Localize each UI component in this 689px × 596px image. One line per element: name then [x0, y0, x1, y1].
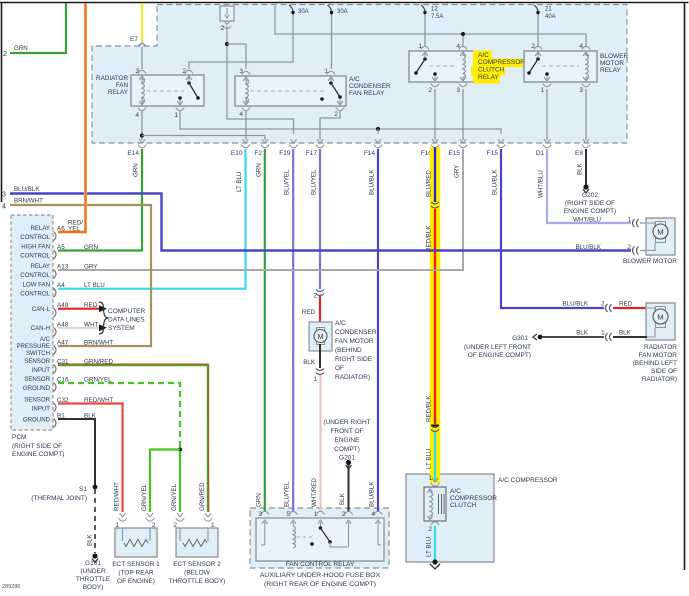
wire: fuse 21 down to blower relay pin 2 — [537, 14, 539, 47]
PCM pin A47 — [54, 346, 57, 355]
svg-text:A/C: A/C — [40, 336, 51, 343]
svg-text:SENSOR: SENSOR — [24, 358, 50, 365]
PCM pin B1 — [54, 419, 57, 428]
under-hood fuse box outline — [92, 5, 627, 144]
svg-text:(RIGHT SIDE OF: (RIGHT SIDE OF — [565, 200, 615, 207]
wire: RED/BLK down — [434, 209, 436, 424]
svg-text:SIDE OF: SIDE OF — [651, 368, 677, 375]
svg-text:WHT/BLU: WHT/BLU — [538, 170, 545, 198]
svg-text:A/C: A/C — [450, 488, 461, 495]
svg-text:M: M — [318, 334, 324, 341]
svg-text:BLU/BLK: BLU/BLK — [14, 186, 40, 193]
svg-text:G301: G301 — [512, 335, 528, 342]
connector: inline RED/BLK to LT BLU — [431, 425, 439, 427]
PCM pin C32 — [54, 403, 57, 412]
svg-text:SYSTEM: SYSTEM — [108, 325, 135, 332]
wire: BLK G301 to radiator fan motor pin 1 — [542, 336, 604, 338]
svg-text:E10: E10 — [231, 150, 243, 157]
svg-text:2: 2 — [601, 301, 605, 308]
svg-text:A6: A6 — [57, 226, 65, 233]
svg-text:4: 4 — [2, 204, 6, 211]
connector E15 — [460, 139, 466, 143]
svg-text:HIGH FAN: HIGH FAN — [21, 244, 50, 251]
svg-text:1: 1 — [418, 43, 422, 50]
svg-text:(BEHIND LEFT: (BEHIND LEFT — [633, 360, 677, 367]
svg-text:289286: 289286 — [2, 584, 20, 590]
svg-text:BLK: BLK — [87, 533, 94, 546]
svg-text:BLK: BLK — [84, 413, 97, 420]
svg-text:SWITCH: SWITCH — [26, 350, 50, 357]
svg-text:LT BLU: LT BLU — [84, 282, 105, 289]
svg-text:F2: F2 — [254, 150, 262, 157]
wire: BLK B1 to S1 — [58, 419, 95, 485]
wire: BLU/BLK PCM pin 3 to blower motor pin 2 — [10, 194, 631, 251]
svg-text:CONTROL: CONTROL — [20, 272, 50, 279]
svg-text:GRN: GRN — [84, 244, 98, 251]
wire: RED CAN-L A49 — [58, 308, 99, 310]
PCM pin A4 — [54, 288, 57, 297]
wire: RED/YEL top to PCM A6 — [58, 3, 86, 232]
svg-text:OF ENGINE): OF ENGINE) — [117, 578, 155, 585]
svg-text:CONDENSER: CONDENSER — [335, 329, 377, 336]
PCM box — [11, 215, 53, 430]
connector F2 — [262, 139, 268, 143]
svg-text:ENGINE COMPT): ENGINE COMPT) — [564, 208, 616, 215]
wire: page left border — [1, 3, 3, 203]
svg-text:RELAY: RELAY — [30, 225, 50, 232]
svg-text:3: 3 — [579, 87, 583, 94]
wire: radiator relay pin 1 output bus y=129 to F14/F15 — [180, 111, 501, 134]
svg-text:FAN MOTOR: FAN MOTOR — [638, 352, 677, 359]
svg-text:2: 2 — [627, 244, 631, 251]
svg-text:4: 4 — [135, 112, 139, 119]
svg-text:SENSOR: SENSOR — [24, 397, 50, 404]
svg-text:RELAY: RELAY — [600, 67, 621, 74]
svg-text:D1: D1 — [536, 150, 545, 157]
svg-text:A/C: A/C — [335, 320, 346, 327]
connector: inline F17 to condenser fan motor pin 2 — [316, 290, 324, 292]
connector F19 — [291, 139, 297, 143]
svg-text:BLU/BLK: BLU/BLK — [369, 169, 376, 195]
motor: blower motor — [646, 218, 675, 255]
svg-text:CAN-L: CAN-L — [32, 306, 51, 313]
ground: A/C compressor case — [432, 559, 437, 564]
wire: blower relay coil pin 3 to E8 — [585, 89, 587, 140]
auxiliary under-hood fuse box — [250, 508, 389, 568]
connector E10 — [243, 139, 249, 143]
svg-text:AUXILIARY UNDER-HOOD FUSE BOX: AUXILIARY UNDER-HOOD FUSE BOX — [260, 572, 381, 579]
svg-text:BODY): BODY) — [83, 584, 104, 591]
fuse 12 7.5A — [421, 5, 425, 11]
svg-text:BRN/WHT: BRN/WHT — [84, 340, 114, 347]
svg-text:G202: G202 — [582, 192, 598, 199]
wire: blower relay pin 1 to D1 — [546, 89, 548, 140]
svg-text:A49: A49 — [57, 302, 69, 309]
wire: RED into radiator fan motor — [613, 307, 647, 309]
svg-text:S1: S1 — [79, 486, 87, 493]
svg-text:FRONT OF: FRONT OF — [330, 428, 363, 435]
wire: clutch relay coil pin 3 to E15 — [462, 89, 464, 140]
svg-text:GRN/YEL: GRN/YEL — [141, 483, 148, 511]
svg-text:F17: F17 — [306, 150, 318, 157]
svg-text:1: 1 — [324, 68, 328, 75]
svg-text:1: 1 — [627, 217, 631, 224]
wire: feed from top to clutch/blower relay coils (y=34 bus) — [275, 6, 586, 47]
svg-text:CONTROL: CONTROL — [20, 234, 50, 241]
svg-text:GRN: GRN — [255, 493, 262, 507]
PCM pin C16 — [54, 383, 57, 392]
svg-text:3: 3 — [456, 87, 460, 94]
svg-text:GRY: GRY — [454, 165, 461, 178]
svg-text:RELAY: RELAY — [30, 263, 50, 270]
svg-text:WHT/RED: WHT/RED — [311, 478, 318, 507]
svg-text:LT BLU: LT BLU — [236, 172, 243, 192]
svg-text:RED/: RED/ — [68, 220, 83, 227]
wire: GRN/YEL C16 dashed to splice — [58, 383, 180, 447]
svg-text:3: 3 — [135, 68, 139, 75]
wire: WHT/BLU D1 to blower motor pin 1 — [547, 149, 631, 223]
svg-text:CONTROL: CONTROL — [20, 253, 50, 260]
wire: LT BLU into compressor — [434, 432, 436, 481]
svg-text:C31: C31 — [57, 359, 69, 366]
wire: BLU/BLK F14 to fan control relay pin 4 — [377, 149, 379, 512]
svg-text:BLK: BLK — [339, 492, 346, 505]
svg-text:BRN/WHT: BRN/WHT — [14, 198, 43, 205]
ground G202 — [583, 184, 588, 189]
svg-text:BLU/BLK: BLU/BLK — [369, 481, 376, 507]
svg-text:A48: A48 — [57, 321, 69, 328]
svg-text:1: 1 — [428, 475, 432, 482]
svg-text:BLU/YEL: BLU/YEL — [311, 169, 318, 195]
node: E14 junction branch to F2 — [140, 133, 144, 137]
svg-text:BLK: BLK — [576, 330, 589, 337]
svg-text:GRN: GRN — [255, 163, 262, 177]
svg-text:GRN: GRN — [14, 45, 28, 52]
svg-text:A/C: A/C — [478, 52, 489, 59]
svg-text:THROTTLE BODY): THROTTLE BODY) — [169, 578, 226, 585]
wire: radiator relay coil pin 4 to E14 — [141, 111, 143, 140]
svg-text:RED/WHT: RED/WHT — [114, 482, 121, 511]
svg-text:2: 2 — [313, 293, 317, 300]
wire: RED condenser motor pigtail — [319, 296, 321, 329]
wire: BLU/YEL F19 to fan control relay pin 5 — [292, 149, 294, 512]
svg-text:A47: A47 — [57, 340, 69, 347]
wire: BRN/WHT pin 4 to PCM A47 — [10, 205, 151, 346]
svg-text:RADIATOR): RADIATOR) — [335, 374, 370, 381]
svg-text:(TOP REAR: (TOP REAR — [118, 570, 153, 577]
wire: E7 to radiator fan relay pin 3 — [141, 47, 143, 69]
svg-text:4: 4 — [456, 43, 460, 50]
svg-text:GRN/YEL: GRN/YEL — [171, 483, 178, 511]
svg-text:(UNDER RIGHT: (UNDER RIGHT — [323, 419, 370, 426]
svg-text:CLUTCH: CLUTCH — [478, 67, 505, 74]
svg-text:COMPRESSOR: COMPRESSOR — [478, 59, 525, 66]
svg-text:E7: E7 — [130, 36, 138, 43]
connector F15 — [498, 139, 504, 143]
svg-text:30A: 30A — [298, 9, 309, 15]
svg-text:2: 2 — [342, 511, 346, 518]
connector: inline radiator fan motor pin 2 — [606, 304, 608, 312]
PCM pin C31 — [54, 365, 57, 374]
connector F10 — [432, 139, 438, 143]
svg-text:ECT SENSOR 1: ECT SENSOR 1 — [112, 561, 160, 568]
svg-text:C32: C32 — [57, 397, 69, 404]
svg-text:(RIGHT REAR OF ENGINE COMPT): (RIGHT REAR OF ENGINE COMPT) — [264, 581, 376, 588]
svg-text:F15: F15 — [487, 150, 499, 157]
wire: 30A fuse 2 down to condenser fan relay pin 1 — [331, 14, 333, 69]
wire: clutch relay pin 2 to F10 — [434, 89, 436, 140]
svg-text:RADIATOR: RADIATOR — [644, 344, 677, 351]
node: fuse 2 branch to condenser fan relay coil pin 3 — [225, 42, 229, 46]
svg-text:RED/BLK: RED/BLK — [426, 395, 433, 422]
fuse 2 (in-box) — [220, 6, 234, 21]
wire: GRN E14 to PCM A5 — [58, 149, 142, 251]
svg-text:2: 2 — [428, 526, 432, 533]
relay: A/C compressor clutch relay — [409, 51, 475, 82]
relay: A/C condenser fan relay — [235, 76, 346, 106]
sensor: ECT sensor 1 — [118, 518, 126, 521]
node: sensor ground splice — [178, 447, 182, 451]
svg-text:GRN: GRN — [133, 163, 140, 177]
fuse 21 40A — [534, 5, 538, 11]
svg-text:1: 1 — [540, 87, 544, 94]
svg-text:3: 3 — [239, 68, 243, 75]
svg-text:MOTOR: MOTOR — [600, 60, 624, 67]
svg-text:COMPRESSOR: COMPRESSOR — [450, 495, 497, 502]
ground G101 — [92, 553, 97, 558]
svg-text:BLK: BLK — [303, 359, 316, 366]
node: junction y34 bus to A/C compressor clutch relay coil — [462, 34, 464, 47]
svg-text:ENGINE: ENGINE — [335, 437, 361, 444]
svg-text:FAN MOTOR: FAN MOTOR — [335, 338, 374, 345]
svg-text:(BEHIND: (BEHIND — [335, 347, 362, 354]
svg-text:ECT SENSOR 2: ECT SENSOR 2 — [173, 561, 221, 568]
svg-text:3: 3 — [258, 511, 262, 518]
svg-text:30A: 30A — [337, 9, 348, 15]
svg-text:BLU/BLK: BLU/BLK — [492, 169, 499, 195]
wire: WHT CAN-H A48 — [58, 327, 99, 329]
svg-text:GRN/RED: GRN/RED — [84, 359, 113, 366]
svg-text:A13: A13 — [57, 264, 69, 271]
connector: inline blower motor pin 1 — [633, 219, 635, 227]
wire: RED/WHT C32 to ECT sensor 1 pin 1 — [58, 404, 123, 513]
svg-text:C16: C16 — [57, 377, 69, 384]
wire: GRN/YEL splice to ECT sensor 1 pin 2 — [150, 450, 180, 513]
svg-text:BLOWER MOTOR: BLOWER MOTOR — [623, 258, 677, 265]
wire: BLU/YEL F17 to condenser fan motor — [319, 149, 321, 289]
svg-text:WHT/BLU: WHT/BLU — [573, 217, 601, 224]
svg-text:1: 1 — [174, 112, 178, 119]
wire: page right border — [684, 3, 686, 571]
PCM pin A48 — [54, 327, 57, 336]
svg-text:RELAY: RELAY — [108, 89, 129, 96]
node: junction to F14 — [376, 127, 380, 131]
splice S1 thermal joint — [93, 485, 98, 490]
svg-text:RED/WHT: RED/WHT — [84, 397, 114, 404]
svg-text:RADIATOR: RADIATOR — [96, 75, 128, 82]
wire: GRN/RED C31 to ECT sensor 2 pin 1 — [58, 365, 208, 512]
relay: fan control relay — [256, 518, 384, 561]
svg-text:BLU/BLK: BLU/BLK — [576, 244, 602, 251]
svg-text:LT BLU: LT BLU — [426, 537, 433, 557]
svg-text:1: 1 — [314, 511, 318, 518]
svg-text:WHT: WHT — [84, 321, 98, 328]
svg-text:A/C: A/C — [349, 76, 360, 83]
svg-text:E14: E14 — [127, 150, 139, 157]
svg-text:3: 3 — [2, 192, 6, 199]
svg-text:COMPUTER: COMPUTER — [108, 308, 146, 315]
svg-text:4: 4 — [579, 43, 583, 50]
svg-text:RED: RED — [619, 301, 633, 308]
PCM pin A5 — [54, 250, 57, 259]
svg-text:M: M — [657, 313, 663, 322]
svg-text:CONDENSER: CONDENSER — [349, 83, 391, 90]
svg-text:2: 2 — [220, 25, 224, 32]
svg-text:RIGHT SIDE: RIGHT SIDE — [335, 356, 373, 363]
svg-text:OF: OF — [335, 365, 344, 372]
A/C compressor box — [406, 474, 494, 562]
svg-text:BLK: BLK — [577, 162, 584, 175]
svg-text:CLUTCH: CLUTCH — [450, 502, 477, 509]
svg-text:(RIGHT SIDE OF: (RIGHT SIDE OF — [12, 443, 62, 450]
wire: YEL top to E7 — [141, 3, 143, 42]
svg-text:(BELOW: (BELOW — [184, 570, 211, 577]
svg-text:INPUT: INPUT — [32, 406, 51, 413]
wire: 30A fuse 1 to radiator fan relay pin 2 — [189, 14, 293, 69]
fuse 30A (radiator fan) — [289, 5, 293, 11]
svg-text:F14: F14 — [364, 150, 376, 157]
wire: GRN top-left off-page 2 — [10, 3, 66, 53]
wire: BLU/BLK F15 to radiator fan motor — [501, 149, 604, 308]
svg-text:INPUT: INPUT — [32, 367, 51, 374]
connector D1 — [544, 139, 550, 143]
svg-text:PRESSURE: PRESSURE — [16, 343, 50, 350]
connector: inline blower motor pin 2 — [633, 247, 635, 255]
svg-text:LT BLU: LT BLU — [426, 449, 433, 469]
svg-text:RELAY: RELAY — [478, 74, 499, 81]
svg-text:CAN-H: CAN-H — [31, 325, 50, 332]
svg-text:5: 5 — [286, 511, 290, 518]
svg-text:BLU/YEL: BLU/YEL — [284, 481, 291, 507]
PCM pin A49 — [54, 308, 57, 317]
wire: fuse 2 down between relays to F19 — [227, 26, 294, 134]
svg-text:4: 4 — [371, 511, 375, 518]
A/C compressor clutch coil — [431, 483, 439, 486]
svg-text:E15: E15 — [448, 150, 460, 157]
PCM pin A13 — [54, 270, 57, 279]
svg-text:BLK: BLK — [619, 330, 632, 337]
wire: condenser relay pin 2 to F17 — [320, 111, 340, 140]
connector E8 — [583, 139, 589, 143]
PCM pin A6 — [54, 232, 57, 241]
svg-text:A/C COMPRESSOR: A/C COMPRESSOR — [498, 477, 558, 484]
connector F17 — [317, 139, 323, 143]
svg-text:COMPT): COMPT) — [334, 446, 360, 453]
wire: GRN/YEL splice to ECT sensor 2 pin 2 — [179, 451, 181, 512]
svg-text:(UNDER LEFT FRONT: (UNDER LEFT FRONT — [464, 344, 531, 351]
svg-text:2: 2 — [3, 51, 7, 58]
svg-text:BLU/YEL: BLU/YEL — [284, 169, 291, 195]
svg-text:E8: E8 — [575, 150, 583, 157]
wire: GRN F2 to fan control relay pin 3 — [264, 149, 266, 512]
svg-text:7.5A: 7.5A — [431, 14, 443, 20]
svg-text:G101: G101 — [85, 560, 101, 567]
wire: fuse 12 down to clutch relay pin 1 — [424, 14, 426, 47]
svg-text:12: 12 — [431, 7, 438, 13]
svg-text:CONTROL: CONTROL — [20, 291, 50, 298]
svg-text:1: 1 — [601, 330, 605, 337]
wire: BLK dashed S1 to G101 — [94, 489, 96, 553]
svg-text:GROUND: GROUND — [23, 416, 51, 423]
svg-text:YEL: YEL — [68, 226, 80, 233]
relay: blower motor relay — [524, 51, 597, 82]
svg-text:F19: F19 — [279, 150, 291, 157]
svg-text:BLOWER: BLOWER — [600, 53, 628, 60]
wire: LT BLU compressor clutch to ground — [434, 526, 436, 560]
svg-text:FAN RELAY: FAN RELAY — [349, 90, 385, 97]
motor: A/C condenser fan motor — [309, 322, 332, 351]
svg-text:PCM: PCM — [12, 434, 26, 441]
highlight: F10 wire — [430, 147, 441, 483]
svg-text:GRY: GRY — [84, 264, 98, 271]
wire: WHT/RED to fan control relay pin 1 — [319, 375, 321, 512]
fuse 30A (condenser fan) — [328, 5, 332, 11]
wire: GRY E15 to PCM A13 — [58, 149, 463, 270]
wire: page top border — [0, 2, 689, 4]
svg-text:40A: 40A — [545, 14, 556, 20]
svg-text:FAN CONTROL RELAY: FAN CONTROL RELAY — [286, 561, 355, 568]
wire: condenser relay coil pin 4 to E10 — [245, 111, 247, 140]
svg-text:GRN/YEL: GRN/YEL — [84, 377, 112, 384]
svg-text:RED: RED — [84, 302, 98, 309]
svg-text:A4: A4 — [57, 282, 65, 289]
svg-text:RED: RED — [302, 309, 316, 316]
svg-text:OF ENGINE COMPT): OF ENGINE COMPT) — [468, 352, 531, 359]
wire: LT BLU E10 to PCM A4 — [58, 149, 246, 289]
svg-text:FAN: FAN — [116, 82, 129, 89]
svg-text:(UNDER: (UNDER — [80, 568, 106, 575]
svg-text:2: 2 — [334, 111, 338, 118]
svg-text:(THERMAL JOINT): (THERMAL JOINT) — [31, 495, 87, 502]
svg-text:BLU/RED: BLU/RED — [426, 170, 433, 197]
relay: radiator fan relay — [131, 75, 204, 106]
svg-text:ENGINE COMPT): ENGINE COMPT) — [12, 451, 64, 458]
svg-text:2: 2 — [531, 43, 535, 50]
sensor: ECT sensor 2 — [176, 518, 184, 521]
motor: radiator fan motor — [646, 303, 675, 340]
svg-text:GRN/RED: GRN/RED — [199, 482, 206, 511]
connector E14 — [139, 139, 145, 143]
svg-text:2: 2 — [428, 87, 432, 94]
svg-text:1: 1 — [313, 376, 317, 383]
highlight: A/C compressor clutch relay label — [473, 51, 492, 60]
wire: BLU/RED from F10 — [434, 147, 436, 202]
connector: inline BLU/RED to RED/BLK — [431, 202, 439, 204]
svg-text:DATA LINES: DATA LINES — [108, 317, 145, 324]
connector F14 — [375, 139, 381, 143]
connector E7 — [138, 43, 146, 46]
brace: computer data lines system — [99, 302, 108, 334]
svg-text:21: 21 — [545, 7, 552, 13]
svg-text:RADIATOR): RADIATOR) — [642, 376, 677, 383]
svg-text:GROUND: GROUND — [23, 385, 51, 392]
wire: BLK G201 to fan control relay pin 2 — [348, 465, 350, 512]
svg-text:A5: A5 — [57, 244, 65, 251]
wire: BLK E8 to G202 — [585, 149, 587, 185]
wire: BLK condenser motor to inline connector — [319, 344, 321, 368]
svg-text:RED/BLK: RED/BLK — [426, 225, 433, 252]
svg-text:THROTTLE: THROTTLE — [76, 576, 111, 583]
